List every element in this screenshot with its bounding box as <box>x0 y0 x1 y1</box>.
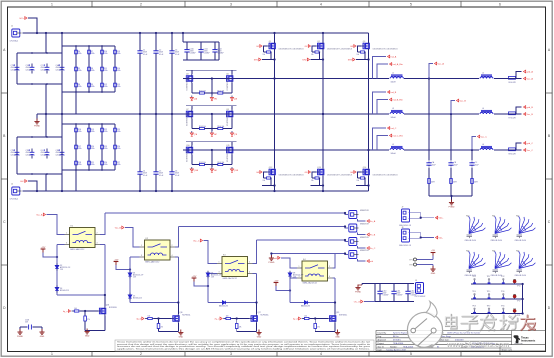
red port Q7B row114 <box>230 131 238 136</box>
wire bottom cap group rails <box>375 284 414 302</box>
mounting fan symbol H20 <box>465 216 486 243</box>
svg-text:10k: 10k <box>357 54 360 56</box>
svg-text:Eng:: Eng: <box>378 336 382 338</box>
svg-text:470k: 470k <box>91 70 95 72</box>
divider resistor R24 470k <box>101 160 104 167</box>
C74 value label <box>26 65 31 71</box>
svg-text:BAS516-E3: BAS516-E3 <box>219 305 228 308</box>
svg-text:3: 3 <box>299 276 300 278</box>
transistor Q4 CSD19536KCS <box>185 74 193 83</box>
cap 10uF label C <box>475 162 479 166</box>
connector J5 Fn_C <box>349 238 359 246</box>
junctions grid2 rails <box>75 123 103 171</box>
gate resistor driver 1 100R <box>72 310 75 312</box>
zener lower label <box>133 296 142 300</box>
svg-text:0.1uF: 0.1uF <box>143 54 147 56</box>
svg-text:GND: GND <box>431 273 436 275</box>
svg-text:BZG03-C15: BZG03-C15 <box>60 290 69 292</box>
svg-text:470k: 470k <box>104 70 108 72</box>
svg-text:100: 100 <box>74 308 77 310</box>
svg-text:4k99: 4k99 <box>431 181 435 183</box>
svg-text:3: 3 <box>230 3 232 7</box>
gate resistor Q13 10k <box>314 177 320 179</box>
red port Q4A row78 <box>190 96 198 101</box>
svg-text:Q1: Q1 <box>269 41 271 43</box>
svg-text:CSD19536KCS: CSD19536KCS <box>185 151 187 162</box>
wire phase leg 1 <box>274 33 276 191</box>
wire to net label Fn_C <box>358 246 366 248</box>
power port +12V relay K4 <box>274 281 279 287</box>
svg-text:H25: H25 <box>516 251 519 253</box>
svg-text:Vac_A: Vac_A <box>36 214 43 217</box>
junction harness Fn_C <box>344 239 346 241</box>
junction source Q3 <box>367 58 369 60</box>
net label rly_c <box>215 317 223 320</box>
transistor Q18 NCF3055L relay driver <box>98 306 106 315</box>
svg-text:CSD19536KCSTT+CSD19536KCS: CSD19536KCSTT+CSD19536KCS <box>373 48 398 50</box>
svg-text:Vac_B: Vac_B <box>115 228 122 230</box>
svg-text:H24: H24 <box>492 251 495 253</box>
net label Fn_C <box>367 247 376 250</box>
inductor L2 filter <box>479 77 494 80</box>
svg-text:120uF: 120uF <box>26 69 31 71</box>
gate resistor R106 10k <box>217 163 224 165</box>
wire driver 1 drain <box>104 295 106 306</box>
net label Ind_B_Rtn <box>390 98 404 101</box>
svg-text:MSB63TVM: MSB63TVM <box>360 237 369 239</box>
bulk capacitor C76 450V 120uF <box>28 149 34 159</box>
wire phase leg 3 <box>368 33 370 191</box>
test point TP16 grid <box>501 291 505 299</box>
wire gate Q3 <box>357 46 362 52</box>
wire driver 3 drain <box>256 303 258 314</box>
svg-text:ntrl: ntrl <box>370 260 374 263</box>
cap 10uF label A <box>432 161 436 166</box>
wire bank1 top rail <box>17 33 62 53</box>
net label relay feed Vac_C <box>193 239 202 242</box>
gate resistor Q12 10k <box>265 177 271 179</box>
svg-text:NCF3055L: NCF3055L <box>182 315 190 317</box>
junction phase B riser <box>450 113 452 115</box>
svg-text:27k: 27k <box>239 326 242 328</box>
L6 label <box>482 144 484 146</box>
svg-text:Number:: Number: <box>390 345 398 348</box>
J2 refdes and part number 1757246-2 <box>10 184 19 201</box>
wire relay output harness ntrl <box>335 254 348 255</box>
transistor Q16 NCF3055L relay driver <box>171 314 179 323</box>
wire DC- feeder x62 lower <box>61 114 63 191</box>
C73 value label <box>11 65 16 71</box>
svg-text:2: 2 <box>97 233 98 235</box>
transistor Q14 CSD19536KCS (low side) <box>362 167 370 176</box>
svg-text:SH1: SH1 <box>214 170 217 172</box>
svg-text:27k: 27k <box>161 326 164 328</box>
svg-text:MSB63TVM: MSB63TVM <box>360 250 369 252</box>
wire relay K3 feed <box>204 241 218 264</box>
svg-text:Q2: Q2 <box>317 41 319 43</box>
svg-text:3: 3 <box>66 243 67 245</box>
C102 value label <box>218 49 224 55</box>
connector J4 Fn_B <box>349 224 359 232</box>
L4 label <box>482 108 484 110</box>
bulk capacitor C1B 450V 120uF <box>58 149 64 159</box>
bus phase A <box>183 78 508 80</box>
svg-text:Fn_A: Fn_A <box>370 220 376 223</box>
wire drain rail row Q7/Q8 <box>186 106 237 110</box>
wire source sense Q3 <box>356 52 369 60</box>
junction gate driver 3 <box>236 317 238 319</box>
red port Q10B row150 <box>230 167 239 172</box>
film capacitor C6 630V 0.1uF <box>169 171 174 174</box>
C4 value label <box>143 171 148 177</box>
zener diode driver 3 AZ23C16-7-F <box>206 271 210 279</box>
output capacitor phase C 10uF <box>469 162 474 167</box>
divider resistor R16 470k <box>75 127 78 134</box>
svg-text:10k: 10k <box>263 180 266 182</box>
svg-text:470k: 470k <box>104 86 108 88</box>
connector J2 <box>12 187 22 195</box>
svg-text:0.068uF: 0.068uF <box>190 53 196 55</box>
svg-text:PGND: PGND <box>17 336 23 338</box>
film capacitor C3 630V 0.1uF <box>169 50 174 53</box>
svg-text:G6RL-1A4 DC12: G6RL-1A4 DC12 <box>145 261 159 264</box>
wire source sense Q14 <box>356 178 369 186</box>
wire relay K2 output riser <box>175 227 178 248</box>
net label G6 (gate) <box>350 171 356 174</box>
svg-text:Drawn By:: Drawn By: <box>378 332 387 335</box>
junction source Q1 <box>273 58 275 60</box>
svg-text:J7: J7 <box>402 207 404 209</box>
wire driver 3 gate <box>232 318 250 320</box>
wire TP1 to +5V <box>417 256 433 260</box>
svg-text:470k: 470k <box>78 53 82 55</box>
svg-text:H23: H23 <box>466 251 469 253</box>
svg-text:470k: 470k <box>91 86 95 88</box>
L5 label <box>391 144 397 155</box>
svg-text:Q11: Q11 <box>226 145 229 147</box>
svg-text:+12V: +12V <box>114 260 119 262</box>
wire gate Q12 <box>263 172 268 178</box>
wire Ind_A sense stub <box>373 57 387 79</box>
cap 10uF label B <box>454 162 458 166</box>
wire source rail row Q4/Q5 <box>192 79 232 96</box>
svg-text:Project:: Project: <box>378 342 385 345</box>
svg-text:27k: 27k <box>87 319 90 321</box>
net label ntrl <box>367 260 374 263</box>
wire PGND stub on MID bus <box>36 114 38 120</box>
divider resistor R12 470k <box>101 82 104 89</box>
zener label AZ23C16-7-F 15V <box>293 273 303 279</box>
svg-text:10k: 10k <box>311 180 314 182</box>
svg-text:CMN-LN-70-50: CMN-LN-70-50 <box>465 240 477 242</box>
svg-text:6: 6 <box>499 3 501 7</box>
connector J6 ntrl <box>349 251 359 259</box>
gate resistor Q1 10k <box>265 51 271 53</box>
inductor L3 340uH <box>389 113 404 116</box>
wire driver 1 gate <box>80 310 98 312</box>
net label G2 (gate) <box>305 45 311 48</box>
wire relay K1 output riser <box>100 213 105 235</box>
snubber capacitor C102 630V 0.068uF <box>214 42 216 60</box>
output capacitor phase B 10uF <box>448 162 453 167</box>
svg-text:470k: 470k <box>78 131 82 133</box>
net label rly_b <box>136 317 144 320</box>
svg-text:470k: 470k <box>104 53 108 55</box>
svg-text:CMN-LN-70-50: CMN-LN-70-50 <box>515 240 527 242</box>
wire driver 2 clamp loop <box>130 257 178 303</box>
svg-text:OC_G: OC_G <box>354 302 360 304</box>
svg-text:120uF: 120uF <box>56 154 61 156</box>
svg-text:G6RL-1A4 DC12: G6RL-1A4 DC12 <box>223 277 237 280</box>
svg-text:470k: 470k <box>117 70 121 72</box>
svg-text:J2: J2 <box>11 184 13 186</box>
power port +5V <box>431 250 436 256</box>
L3 label <box>391 108 397 119</box>
resistor grid 1 columns <box>76 46 115 92</box>
divider resistor R25 470k <box>114 127 117 134</box>
power ground PGND mid-bus <box>34 119 40 128</box>
zener diode driver 2 lower <box>128 293 132 301</box>
svg-text:CSD19536KCSTT+CSD19536KCS: CSD19536KCSTT+CSD19536KCS <box>327 174 352 176</box>
svg-text:470k: 470k <box>117 86 121 88</box>
gate resistor driver 4 100R <box>302 318 305 320</box>
svg-text:L3: L3 <box>392 108 394 110</box>
svg-text:470k: 470k <box>91 131 95 133</box>
svg-text:TP14: TP14 <box>472 291 476 293</box>
svg-text:+12V: +12V <box>41 247 46 249</box>
svg-text:GND: GND <box>179 336 184 338</box>
svg-text:3: 3 <box>219 272 220 274</box>
watermark chinese characters <box>446 315 518 331</box>
C6 value label <box>41 150 46 156</box>
junction harness Fn_A <box>344 212 346 214</box>
wire TP2 to GND <box>417 265 433 269</box>
svg-text:0.1uF: 0.1uF <box>143 175 147 177</box>
net label G4 (gate) <box>256 171 262 174</box>
film capacitor C4 630V 0.1uF <box>137 171 142 174</box>
svg-text:1: 1 <box>299 266 300 268</box>
divider resistor R9 470k <box>88 82 91 89</box>
mounting fan symbol H24 <box>491 251 512 278</box>
net label Vac_B <box>457 99 467 102</box>
C1A value label <box>56 64 61 71</box>
svg-text:rly_a: rly_a <box>63 310 69 313</box>
svg-text:Vac_B: Vac_B <box>460 101 467 103</box>
svg-text:0.1uF: 0.1uF <box>159 54 163 56</box>
svg-text:10kW 3-Phase 3-Level Grid Tie: 10kW 3-Phase 3-Level Grid Tie Inverter <box>447 332 481 335</box>
C3 value label <box>175 50 180 56</box>
svg-text:4: 4 <box>320 352 322 356</box>
svg-text:R103 10k: R103 10k <box>199 126 206 128</box>
wire relay K4 feed <box>281 258 297 268</box>
wire gate Q13 <box>312 172 317 178</box>
divider resistor R5 470k <box>75 66 78 73</box>
wire output cap common rail <box>429 196 472 202</box>
svg-text:TIDA-01606: TIDA-01606 <box>403 345 413 348</box>
gate resistor R102 10k <box>217 92 224 94</box>
relay K1 G6RL-1A4 DC12 <box>65 225 101 251</box>
net label grid_C <box>524 142 534 145</box>
red port Q7A row114 <box>190 131 198 136</box>
svg-text:120uF: 120uF <box>11 154 16 156</box>
test point TP1 <box>409 258 416 261</box>
svg-text:PGND: PGND <box>34 125 40 127</box>
svg-text:GND: GND <box>257 336 262 338</box>
svg-text:Ind_B: Ind_B <box>391 92 397 94</box>
wire to net label ntrl <box>358 259 366 261</box>
svg-text:PGND: PGND <box>449 206 455 208</box>
svg-text:TP13: TP13 <box>517 286 521 288</box>
svg-text:Vac_B: Vac_B <box>527 114 534 116</box>
divider resistor R17 470k <box>75 144 78 151</box>
transistor Q13 CSD19536KCS (low side) <box>316 167 324 176</box>
svg-text:MSB63TVM: MSB63TVM <box>360 210 369 212</box>
film capacitor C5 630V 0.1uF <box>153 171 158 174</box>
red port SH7 row114 <box>210 131 217 136</box>
net label HV+ <box>20 17 27 20</box>
junction +12V relay K3 <box>207 285 209 287</box>
bus HV- (DC- rail) <box>23 190 369 192</box>
svg-text:Vac_A: Vac_A <box>438 63 445 66</box>
LED D22 red <box>513 309 521 317</box>
L1 label <box>391 73 397 84</box>
svg-text:www.elecfans.com: www.elecfans.com <box>446 342 509 349</box>
junction phase A leg <box>273 77 275 79</box>
svg-text:L6: L6 <box>482 144 484 146</box>
svg-text:10uF: 10uF <box>432 164 436 166</box>
wire grid2 bottom riser <box>75 170 77 191</box>
power ground PGND output caps <box>449 200 455 209</box>
svg-text:470k: 470k <box>78 70 82 72</box>
svg-text:grid_C: grid_C <box>527 142 534 145</box>
svg-text:470k: 470k <box>78 164 82 166</box>
svg-text:Ind_B_Rtn: Ind_B_Rtn <box>393 99 404 102</box>
bus HV+ (DC+ rail) <box>23 32 369 34</box>
junction driver 2 clamp/drain <box>177 301 179 303</box>
svg-text:TP21: TP21 <box>517 315 521 317</box>
C100 value label <box>190 49 196 55</box>
svg-text:2: 2 <box>172 245 173 247</box>
J1 refdes and part number 1757246-2 <box>10 26 19 43</box>
wire relay output harness Fn_C <box>257 240 349 242</box>
connector J9 <box>415 280 426 298</box>
bleeder resistor phase B 4k99 <box>450 179 457 184</box>
svg-text:Date:: Date: <box>378 348 383 351</box>
power ground PGND neutral <box>269 255 275 264</box>
svg-text:1: 1 <box>51 352 53 356</box>
snubber capacitor C101 630V 0.068uF <box>200 42 202 60</box>
svg-text:GND: GND <box>40 336 45 338</box>
divider resistor R11 470k <box>101 66 104 73</box>
svg-text:R104 10k: R104 10k <box>217 126 224 128</box>
C1B value label <box>56 150 61 156</box>
svg-text:Fn_B: Fn_B <box>370 235 376 237</box>
divider resistor R21 470k <box>88 160 91 167</box>
test point TP19 grid <box>487 306 491 314</box>
wire Vac_B riser <box>451 101 455 115</box>
C111 label <box>397 290 403 296</box>
bus phase B <box>183 113 508 115</box>
bulk capacitor C2 450V 120uF <box>43 64 49 74</box>
svg-text:L5: L5 <box>392 144 394 146</box>
junction +12V relay K1 <box>56 256 58 258</box>
net label HV- <box>20 180 27 183</box>
svg-text:4: 4 <box>172 255 173 257</box>
svg-text:6: 6 <box>499 352 501 356</box>
net label Vac_A <box>435 62 445 65</box>
wire driver 4 drain <box>334 303 336 314</box>
svg-text:CSD19536KCS: CSD19536KCS <box>225 80 227 91</box>
svg-text:4k99: 4k99 <box>453 181 457 183</box>
svg-text:Q3: Q3 <box>363 41 365 43</box>
svg-text:470k: 470k <box>78 148 82 150</box>
wire bank1 bottom rail <box>17 53 62 84</box>
net label Vdc+ <box>436 216 445 219</box>
svg-text:2: 2 <box>249 262 250 264</box>
net label SH1_A (source) <box>254 58 261 61</box>
divider resistor R22 470k <box>101 127 104 134</box>
svg-text:3: 3 <box>230 352 232 356</box>
wire relay K2 coil switch leg <box>175 256 178 258</box>
ground GND driver 3 <box>256 330 261 339</box>
wire HV+ entry <box>28 18 37 33</box>
svg-text:10uF: 10uF <box>454 164 458 166</box>
net label Ind_A_Rtn <box>390 63 404 66</box>
svg-text:C111: C111 <box>397 290 401 292</box>
Q18 label NCF3055L <box>106 305 117 310</box>
svg-text:grid_A: grid_A <box>527 71 534 74</box>
svg-text:SH7: SH7 <box>214 134 217 136</box>
svg-text:HV+: HV+ <box>20 18 25 20</box>
capacitor C112 630V 0.068uF <box>407 284 409 302</box>
junction +12V relay K2 <box>129 268 131 270</box>
TI logo <box>514 335 536 345</box>
wire to net label Fn_A <box>358 219 366 221</box>
svg-text:E1: E1 <box>437 346 439 348</box>
svg-text:TP10: TP10 <box>472 276 476 278</box>
svg-text:CMN-LN-70-50: CMN-LN-70-50 <box>491 240 503 242</box>
svg-text:application. Texas Instruments: application. Texas Instruments provides … <box>117 347 371 350</box>
svg-text:1: 1 <box>219 262 220 264</box>
wire LED row 2 <box>471 298 523 300</box>
svg-text:100: 100 <box>226 315 229 317</box>
wire driver 3 clamp loop <box>208 274 257 303</box>
svg-text:CSD19536KCSTT+CSD19536KCS: CSD19536KCSTT+CSD19536KCS <box>327 48 352 50</box>
transistor Q7 CSD19536KCS <box>185 109 193 118</box>
wire drain rail row Q4/Q5 <box>186 70 237 74</box>
divider resistor R13 470k <box>114 49 117 56</box>
power port +12V relay K1 <box>41 247 46 253</box>
svg-text:J8: J8 <box>402 227 404 229</box>
svg-text:R106 10k: R106 10k <box>217 162 224 164</box>
svg-text:5: 5 <box>410 352 412 356</box>
Q17 label NCF3055L <box>258 312 269 317</box>
wire snubber rail <box>183 33 219 60</box>
junction driver 1 clamp/drain <box>104 294 106 296</box>
output capacitor phase A 10uF <box>426 162 431 167</box>
bus MID rail <box>37 113 508 115</box>
svg-text:TP1: TP1 <box>409 259 412 261</box>
svg-text:470k: 470k <box>117 131 121 133</box>
svg-text:10k: 10k <box>263 54 266 56</box>
svg-text:BZG03-C15: BZG03-C15 <box>133 298 142 300</box>
transistor Q19 NCF3055L relay driver <box>328 314 336 323</box>
bus phase C <box>183 149 508 151</box>
C76 value label <box>26 150 31 156</box>
connector J7 2-pin <box>399 207 411 227</box>
bleeder resistor phase C 4k99 <box>471 179 478 184</box>
wire relay K4 coil supply <box>276 278 297 291</box>
